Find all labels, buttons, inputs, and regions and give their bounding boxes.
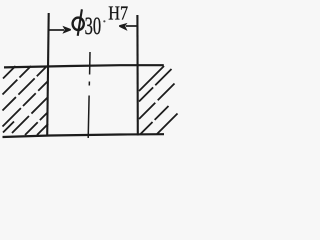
svg-text:H7: H7 — [108, 2, 128, 24]
svg-text:30: 30 — [85, 11, 101, 39]
